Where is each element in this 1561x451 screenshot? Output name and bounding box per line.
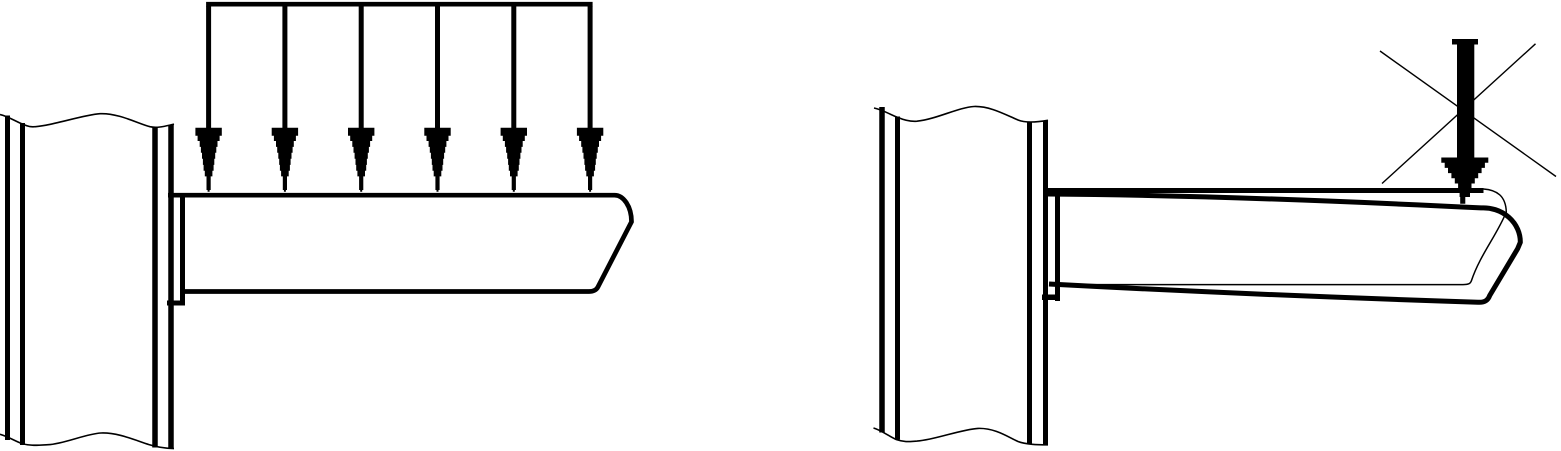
load arrow 5 shaft (511, 6, 516, 129)
distributed load top bar (206, 2, 592, 7)
column left inner line (895, 117, 900, 440)
load arrow 2 head (272, 128, 298, 192)
load arrow 1 shaft (206, 6, 211, 129)
load arrow 3 head (348, 128, 374, 192)
column top break wave (0, 114, 174, 128)
column right outer line (1043, 121, 1048, 445)
crossed-out X line (top-left to bottom-right) (1380, 51, 1556, 177)
column top break wave (874, 106, 1048, 122)
crossed-out X line (bottom-left to top-right) (1382, 44, 1536, 184)
column left outer line (879, 107, 885, 433)
load arrow 5 head (501, 128, 527, 192)
column right inner line (152, 127, 158, 448)
point load arrow cap (1452, 39, 1478, 45)
load arrow 4 shaft (435, 6, 440, 129)
arm original tip outline (thin rounded corner, chamfer, bottom edge) (1049, 189, 1506, 285)
arm bracket plate (180, 193, 185, 306)
point load arrow shaft (1457, 41, 1474, 158)
column right outer line (168, 125, 174, 449)
LEFT FIGURE: cantilever arm with uniform distributed load (0, 4, 632, 448)
arm outline (top edge, chamfered tip, bottom edge) (168, 195, 632, 291)
column bottom break wave (874, 428, 1049, 445)
RIGHT FIGURE: cantilever arm with concentrated point load (crossed out) (874, 41, 1557, 445)
arm bracket plate (1055, 189, 1060, 301)
load arrow 6 head (577, 128, 603, 192)
load arrow 1 head (195, 128, 221, 192)
arm deflected outline (sloped top, drooped tip, sloped bottom) (1048, 194, 1520, 302)
column bottom break wave (0, 433, 174, 449)
column left inner line (20, 123, 25, 445)
point load arrow head (1441, 158, 1488, 204)
arm original top edge (thick horizontal) (1043, 188, 1484, 193)
column left outer line (5, 116, 10, 441)
arm bracket bottom step (167, 301, 185, 306)
arm bracket bottom step (1042, 294, 1060, 300)
load arrow 4 head (424, 128, 450, 192)
load arrow 6 shaft (588, 6, 593, 129)
load arrow 2 shaft (282, 6, 287, 129)
load arrow 3 shaft (359, 6, 364, 129)
column right inner line (1027, 123, 1032, 445)
